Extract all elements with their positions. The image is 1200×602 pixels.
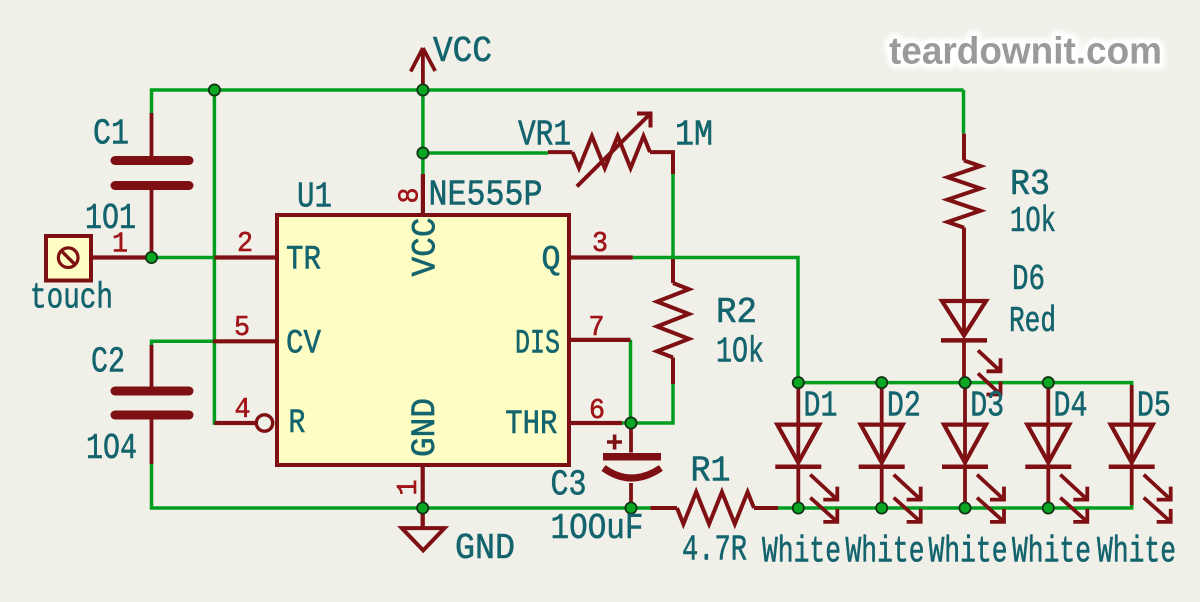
pin 4 R lead with bubble (214, 415, 272, 431)
wire C2 to CV (152, 341, 214, 345)
wire THR stub (620, 421, 631, 425)
svg-text:D3: D3 (970, 386, 1004, 427)
wire DIS to THR node (629, 340, 633, 423)
svg-text:White: White (846, 532, 925, 574)
svg-text:D1: D1 (804, 386, 838, 427)
svg-text:White: White (762, 532, 841, 574)
svg-text:D6: D6 (1012, 259, 1045, 300)
svg-text:1O1: 1O1 (85, 198, 136, 239)
wire LED anode rail (798, 383, 1132, 406)
svg-text:THR: THR (505, 406, 557, 444)
resistor R3 (948, 134, 981, 299)
LED D1 (775, 385, 837, 522)
resistor R1 (651, 492, 779, 524)
pin 2 TR lead (214, 255, 277, 259)
svg-text:1: 1 (392, 480, 425, 496)
svg-text:4: 4 (235, 393, 251, 426)
svg-text:7: 7 (589, 311, 605, 344)
pin 7 DIS lead (569, 338, 631, 342)
svg-text:TR: TR (286, 242, 321, 280)
svg-text:C1: C1 (93, 114, 129, 155)
svg-text:CV: CV (286, 325, 322, 363)
svg-text:8: 8 (394, 188, 427, 204)
wire pin8 node to VR1 (423, 151, 548, 155)
op-amp U1 NE555P body (277, 215, 569, 465)
svg-text:D2: D2 (887, 386, 921, 427)
capacitor C1 (115, 113, 189, 252)
svg-text:1: 1 (112, 228, 128, 261)
touch pad P1 (46, 236, 91, 281)
svg-text:U1: U1 (297, 177, 332, 218)
pin 5 CV lead (213, 339, 277, 343)
svg-text:3: 3 (592, 227, 608, 260)
svg-text:GND: GND (407, 398, 445, 457)
svg-text:D5: D5 (1137, 386, 1171, 427)
svg-text:1OOuF: 1OOuF (551, 508, 644, 549)
svg-text:5: 5 (234, 311, 250, 344)
LED D5 (1109, 385, 1171, 522)
wire VCC rail to R3 (962, 90, 966, 134)
wire rail to pin4 R (214, 90, 216, 423)
watermark teardownit.com (889, 31, 1162, 73)
wire GND rail (152, 464, 651, 508)
pin 1 GND lead (421, 465, 425, 527)
svg-text:C3: C3 (551, 465, 587, 506)
svg-text:GND: GND (455, 528, 515, 569)
svg-text:R2: R2 (716, 292, 757, 333)
svg-text:Red: Red (1009, 301, 1056, 342)
LED D6 (941, 228, 1001, 395)
svg-text:4.7R: 4.7R (682, 530, 747, 571)
svg-text:1O4: 1O4 (86, 428, 137, 469)
svg-text:touch: touch (30, 278, 113, 319)
svg-text:White: White (1012, 532, 1091, 574)
svg-text:White: White (929, 532, 1008, 574)
ground symbol GND (402, 508, 445, 550)
svg-text:VR1: VR1 (518, 115, 571, 156)
wire Q output (633, 258, 798, 383)
svg-text:White: White (1097, 532, 1176, 574)
svg-text:2: 2 (237, 227, 253, 260)
svg-text:teardownit.com: teardownit.com (889, 31, 1162, 73)
pin 8 VCC lead (421, 174, 425, 215)
pin 3 Q lead (569, 255, 633, 259)
capacitor C3 (603, 427, 661, 505)
wire VCC rail (152, 90, 964, 113)
wire touch node to TR (152, 256, 215, 260)
pin numbers (112, 188, 608, 496)
capacitor C2 (115, 345, 189, 464)
wire touch pad lead (91, 255, 147, 259)
wire VR1 to R2 (671, 174, 675, 258)
svg-text:R1: R1 (691, 451, 731, 492)
wire VCC stub pin8 (421, 90, 425, 174)
svg-text:C2: C2 (91, 342, 125, 383)
svg-text:DIS: DIS (515, 325, 560, 363)
pin names (286, 218, 561, 458)
svg-text:NE555P: NE555P (429, 175, 543, 216)
svg-text:R3: R3 (1010, 164, 1050, 205)
svg-text:1Ok: 1Ok (1010, 201, 1056, 242)
LED D4 (1025, 385, 1087, 522)
svg-text:Q: Q (542, 242, 561, 280)
power flag VCC (411, 48, 436, 90)
svg-text:VCC: VCC (408, 218, 446, 277)
svg-text:VCC: VCC (433, 31, 492, 72)
LED D3 (942, 385, 1004, 522)
svg-text:D4: D4 (1054, 386, 1088, 427)
svg-text:R: R (288, 405, 305, 443)
potentiometer VR1 (548, 112, 673, 187)
resistor R2 (657, 259, 689, 384)
wire LED cathode rail (778, 494, 1132, 508)
LED D2 (859, 385, 921, 522)
wire R2 to THR node (631, 384, 673, 423)
pin 6 THR lead (569, 421, 622, 425)
svg-text:6: 6 (589, 394, 605, 427)
svg-text:1Ok: 1Ok (716, 332, 764, 373)
svg-text:1M: 1M (675, 115, 713, 156)
